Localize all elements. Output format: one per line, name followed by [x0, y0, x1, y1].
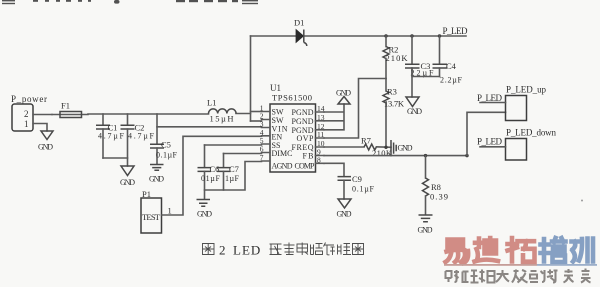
svg-text:GND: GND	[336, 89, 351, 98]
svg-text:4.7µF: 4.7µF	[128, 132, 155, 141]
svg-text:D1: D1	[294, 18, 304, 28]
wire C3 C4 bottoms to ground	[412, 68, 440, 97]
earth ground under C6	[197, 200, 213, 219]
svg-text:P_LED: P_LED	[477, 93, 503, 103]
svg-text:GND: GND	[337, 210, 352, 219]
connector P_LED_down	[477, 128, 557, 161]
svg-text:P_power: P_power	[11, 94, 47, 104]
svg-text:GND: GND	[38, 143, 53, 152]
resistor R7	[361, 136, 393, 159]
wire up to LED connector	[467, 112, 506, 155]
pin stubs left	[262, 112, 271, 162]
svg-text:LED: LED	[233, 243, 261, 258]
svg-text:P_LED_down: P_LED_down	[506, 128, 557, 138]
svg-text:2.2µF: 2.2µF	[440, 76, 463, 85]
earth ground under R8	[418, 215, 433, 235]
wire SW pin2	[251, 120, 262, 122]
svg-text:0.39: 0.39	[430, 192, 448, 202]
fuse F1	[52, 101, 88, 118]
svg-text:TPS61500: TPS61500	[272, 93, 312, 103]
svg-text:R8: R8	[431, 182, 441, 192]
svg-text:4.7µF: 4.7µF	[98, 132, 125, 141]
ground GND under C3	[406, 97, 422, 116]
node dot R8 tap	[424, 154, 427, 157]
connector P_power	[11, 94, 47, 131]
ground GND under P_power	[38, 131, 53, 152]
wire SS pin5 from C6	[205, 144, 262, 146]
pin stubs right	[316, 112, 325, 163]
capacitor C4	[433, 36, 463, 85]
svg-text:GND: GND	[149, 175, 164, 184]
wire L1 right to node	[236, 113, 251, 115]
svg-text:FB: FB	[303, 152, 314, 161]
svg-text:COMP: COMP	[295, 162, 316, 171]
resistor R8	[423, 156, 449, 215]
svg-text:C6: C6	[210, 164, 220, 174]
earth ground under C5	[149, 165, 164, 184]
svg-text:1: 1	[168, 206, 172, 216]
svg-text:13.7K: 13.7K	[384, 99, 405, 109]
wire top diode rail	[251, 35, 467, 37]
wire main input rail	[88, 113, 209, 115]
svg-text:U1: U1	[270, 83, 281, 93]
ground GND under C9	[337, 199, 352, 219]
wire SW pin1	[251, 111, 262, 113]
svg-text:2: 2	[24, 109, 29, 119]
node dot rail R2	[384, 34, 387, 37]
wire FB pin9 to output sense	[324, 155, 467, 157]
svg-text:F1: F1	[61, 101, 70, 111]
svg-text:1µF: 1µF	[225, 174, 240, 183]
capacitor C1	[96, 114, 125, 158]
svg-text:P_LED_up: P_LED_up	[506, 85, 547, 95]
resistor R3	[383, 79, 405, 148]
svg-text:DIMC: DIMC	[272, 149, 293, 158]
node dot rail C4	[438, 34, 441, 37]
svg-text:2: 2	[219, 243, 226, 258]
ground sideways at FREQ network	[391, 140, 413, 157]
svg-text:PGND: PGND	[292, 108, 314, 117]
svg-text:GND: GND	[197, 210, 212, 219]
ground GND above PGND	[336, 89, 351, 105]
wire AGND pin7 down to C6 C7 bottoms	[205, 162, 262, 191]
svg-text:P_LED: P_LED	[443, 26, 469, 36]
caption 图2 LED驱动电路原理图	[203, 244, 215, 255]
svg-text:8: 8	[317, 155, 321, 164]
svg-text:0.1µF: 0.1µF	[156, 151, 178, 160]
wire DIMC pin6 from C7	[224, 153, 262, 155]
wire C1-C2 bottoms	[103, 157, 128, 159]
ground GND under C1 C2	[120, 166, 135, 187]
svg-text:PGND: PGND	[292, 117, 314, 126]
svg-text:01µF: 01µF	[201, 174, 221, 183]
svg-text:C5: C5	[161, 140, 171, 150]
svg-text:0.1µF: 0.1µF	[352, 185, 375, 194]
svg-text:C7: C7	[229, 164, 239, 174]
svg-text:210K: 210K	[386, 53, 409, 63]
svg-text:GND: GND	[120, 178, 135, 187]
wire SW node vertical	[250, 36, 252, 121]
pin names	[272, 108, 316, 171]
svg-text:GND: GND	[398, 144, 413, 153]
svg-text:P_LED: P_LED	[477, 137, 503, 147]
pin numbers	[260, 104, 325, 165]
wire P_power pin2 to F1	[33, 114, 52, 116]
svg-text:AGND: AGND	[272, 162, 293, 171]
svg-text:GND: GND	[407, 107, 422, 116]
svg-text:C9: C9	[352, 174, 362, 184]
inductor L1	[207, 98, 236, 124]
cropped text fragments top strip	[2, 0, 258, 4]
node dot output corner	[465, 154, 468, 157]
svg-text:C4: C4	[446, 61, 457, 71]
svg-text:L1: L1	[207, 98, 216, 108]
capacitor C9 on COMP pin8	[324, 163, 375, 199]
connector P1 TEST	[141, 189, 172, 233]
svg-text:R3: R3	[387, 87, 397, 97]
svg-text:GND: GND	[418, 226, 433, 235]
capacitor C3	[405, 36, 434, 78]
capacitor C7	[217, 154, 240, 191]
capacitor C6	[198, 145, 221, 199]
connector P_LED_up	[477, 85, 547, 121]
watermark logo 易迪拓培训	[446, 238, 535, 263]
wire P_power pin1 to ground	[33, 124, 47, 132]
svg-text:R7: R7	[361, 136, 371, 146]
wire VIN rail from C5 to pin3	[157, 126, 262, 128]
svg-text:TEST: TEST	[142, 212, 161, 222]
IC U1 TPS61500	[260, 83, 325, 172]
watermark slogan 射频和天线设计专家	[446, 269, 591, 283]
node dot R3 R7 junction	[384, 146, 387, 149]
diode D1	[294, 18, 307, 47]
svg-text:7: 7	[260, 153, 264, 162]
watermark underline	[444, 264, 537, 266]
svg-text:1: 1	[24, 119, 29, 129]
capacitor C5	[150, 114, 178, 164]
svg-text:15µH: 15µH	[210, 114, 234, 124]
svg-text:210K: 210K	[372, 148, 393, 158]
svg-text:OVP: OVP	[297, 134, 315, 143]
wire OVP tap	[324, 79, 386, 139]
wire FREQ pin10 to R7	[324, 146, 364, 148]
wire PGND pins to ground	[324, 104, 344, 130]
node dot rail C3	[410, 34, 413, 37]
resistor R2	[383, 36, 408, 79]
capacitor C2	[121, 114, 155, 166]
wire P1 pin1 to EN	[162, 136, 262, 215]
